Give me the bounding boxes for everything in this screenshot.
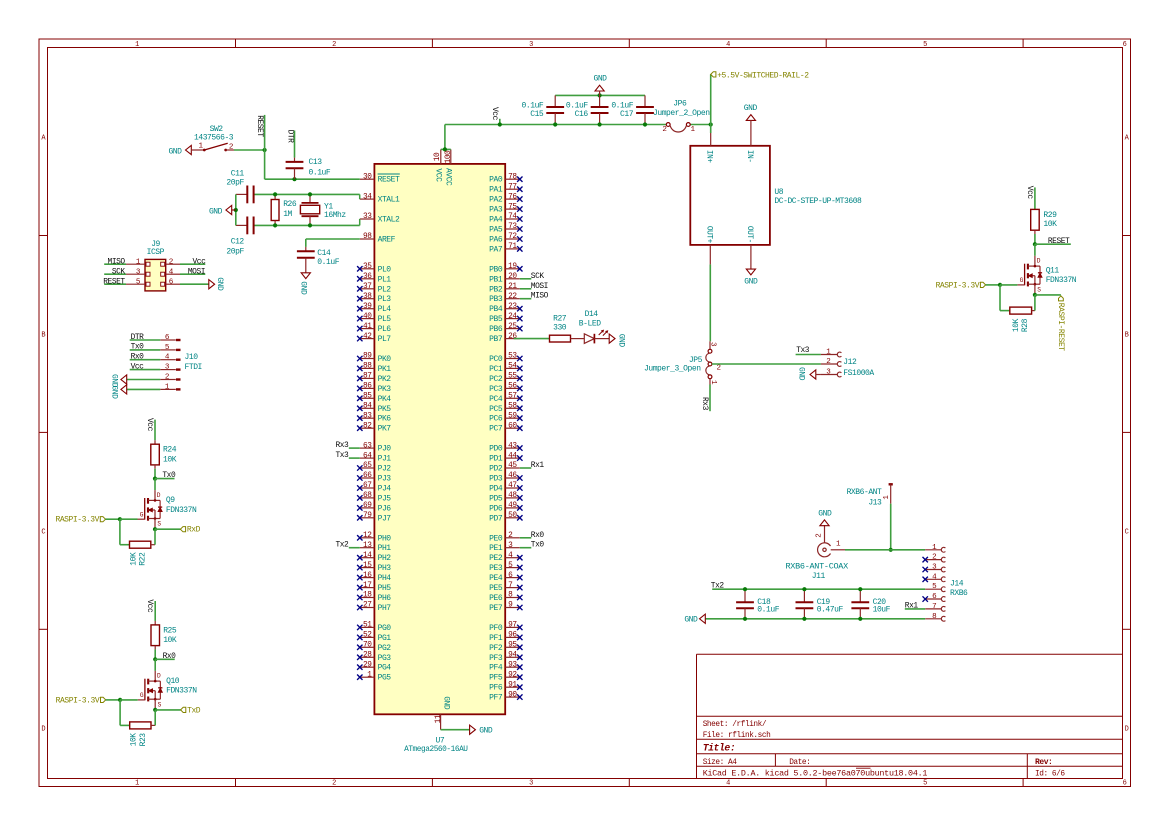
svg-text:67: 67 <box>363 482 372 490</box>
svg-text:R26: R26 <box>283 200 297 209</box>
svg-text:53: 53 <box>508 353 517 361</box>
svg-text:DTR: DTR <box>285 130 294 144</box>
svg-text:RXB6: RXB6 <box>950 589 968 598</box>
svg-text:Rx0: Rx0 <box>131 353 145 362</box>
svg-text:PJ2: PJ2 <box>378 465 392 474</box>
svg-text:2: 2 <box>332 780 336 788</box>
svg-text:PH1: PH1 <box>378 544 392 553</box>
svg-text:GND: GND <box>441 696 450 710</box>
svg-text:98: 98 <box>363 233 372 241</box>
svg-text:20pF: 20pF <box>226 179 244 188</box>
svg-text:2: 2 <box>332 41 336 49</box>
svg-text:PF3: PF3 <box>489 654 503 663</box>
svg-text:PH4: PH4 <box>378 574 392 583</box>
svg-text:100: 100 <box>445 150 453 163</box>
svg-text:PL4: PL4 <box>378 305 392 314</box>
svg-text:JP6: JP6 <box>673 99 687 108</box>
svg-text:PJ3: PJ3 <box>378 475 392 484</box>
svg-text:D14: D14 <box>585 310 599 319</box>
svg-text:RXB6-ANT: RXB6-ANT <box>847 488 882 497</box>
svg-text:RXB6-ANT-COAX: RXB6-ANT-COAX <box>786 561 849 571</box>
svg-text:MOSI: MOSI <box>188 267 205 276</box>
svg-text:IN+: IN+ <box>705 150 713 163</box>
svg-text:PH2: PH2 <box>378 554 392 563</box>
svg-text:PC6: PC6 <box>489 415 503 424</box>
svg-text:C17: C17 <box>620 110 634 119</box>
svg-text:82: 82 <box>363 422 372 430</box>
svg-text:PL2: PL2 <box>378 285 392 294</box>
svg-text:85: 85 <box>363 393 372 401</box>
svg-text:47: 47 <box>508 482 517 490</box>
svg-text:PB2: PB2 <box>489 285 503 294</box>
svg-text:43: 43 <box>508 442 517 450</box>
svg-text:72: 72 <box>508 233 517 241</box>
svg-text:94: 94 <box>508 652 517 660</box>
svg-text:3: 3 <box>529 41 533 49</box>
svg-text:21: 21 <box>508 283 517 291</box>
svg-text:R24: R24 <box>163 446 177 455</box>
svg-text:C: C <box>1125 529 1129 537</box>
svg-text:PF2: PF2 <box>489 644 503 653</box>
svg-text:Rx0: Rx0 <box>163 652 177 661</box>
svg-text:38: 38 <box>363 293 372 301</box>
svg-text:PC2: PC2 <box>489 375 503 384</box>
svg-text:PG3: PG3 <box>378 654 392 663</box>
svg-text:J11: J11 <box>812 572 826 581</box>
svg-text:GND: GND <box>215 277 224 291</box>
svg-text:XTAL2: XTAL2 <box>378 216 400 225</box>
svg-text:66: 66 <box>363 472 372 480</box>
svg-text:18: 18 <box>363 592 372 600</box>
svg-text:Jumper_3_Open: Jumper_3_Open <box>644 365 701 374</box>
svg-text:TxD: TxD <box>187 706 201 715</box>
svg-text:MOSI: MOSI <box>531 282 548 291</box>
svg-text:Vcc: Vcc <box>131 362 145 371</box>
svg-text:PA1: PA1 <box>489 186 503 195</box>
svg-text:OUT-: OUT- <box>745 226 753 243</box>
svg-text:88: 88 <box>363 363 372 371</box>
svg-text:PK6: PK6 <box>378 415 392 424</box>
svg-text:R23: R23 <box>139 733 148 747</box>
svg-text:PC5: PC5 <box>489 405 503 414</box>
svg-text:B: B <box>41 332 45 340</box>
svg-text:PE4: PE4 <box>489 574 503 583</box>
svg-text:PB3: PB3 <box>489 295 503 304</box>
svg-text:AVCC: AVCC <box>444 168 453 186</box>
svg-text:RESET: RESET <box>255 115 264 137</box>
svg-text:PE3: PE3 <box>489 564 503 573</box>
svg-text:52: 52 <box>363 632 372 640</box>
svg-text:C16: C16 <box>575 110 589 119</box>
svg-text:J13: J13 <box>868 499 882 508</box>
svg-text:PJ5: PJ5 <box>378 494 392 503</box>
svg-text:89: 89 <box>363 353 372 361</box>
svg-text:GND: GND <box>744 277 758 286</box>
svg-text:57: 57 <box>508 393 517 401</box>
svg-text:PB7: PB7 <box>489 335 503 344</box>
svg-text:ICSP: ICSP <box>147 248 165 257</box>
svg-text:PG2: PG2 <box>378 644 392 653</box>
svg-text:PJ7: PJ7 <box>378 514 392 523</box>
svg-text:PB5: PB5 <box>489 315 503 324</box>
svg-text:GND: GND <box>744 104 758 113</box>
svg-text:49: 49 <box>508 502 517 510</box>
svg-text:14: 14 <box>363 552 372 560</box>
svg-text:97: 97 <box>508 622 517 630</box>
svg-text:50: 50 <box>508 512 517 520</box>
svg-text:R22: R22 <box>139 552 148 566</box>
svg-text:FTDI: FTDI <box>185 363 202 372</box>
svg-text:30: 30 <box>363 173 372 181</box>
svg-text:5: 5 <box>923 41 927 49</box>
svg-text:59: 59 <box>508 412 517 420</box>
svg-text:PH5: PH5 <box>378 584 392 593</box>
svg-text:RxD: RxD <box>187 526 201 535</box>
svg-text:37: 37 <box>363 283 372 291</box>
svg-text:B-LED: B-LED <box>579 319 601 328</box>
svg-text:R29: R29 <box>1043 211 1057 220</box>
svg-text:D: D <box>1125 726 1129 734</box>
svg-text:PJ0: PJ0 <box>378 445 392 454</box>
svg-text:44: 44 <box>508 452 517 460</box>
svg-text:PK7: PK7 <box>378 425 392 434</box>
svg-text:PA0: PA0 <box>489 176 503 185</box>
svg-text:5: 5 <box>923 780 927 788</box>
svg-text:Sheet: /rflink/: Sheet: /rflink/ <box>703 721 767 729</box>
svg-text:PA5: PA5 <box>489 226 503 235</box>
svg-text:Vcc: Vcc <box>1025 186 1034 200</box>
svg-text:RASPI-3.3V: RASPI-3.3V <box>56 696 100 705</box>
svg-text:Q11: Q11 <box>1046 267 1060 276</box>
svg-text:0.1uF: 0.1uF <box>757 606 779 615</box>
svg-text:41: 41 <box>363 323 372 331</box>
svg-text:R25: R25 <box>163 626 177 635</box>
svg-text:GND: GND <box>796 367 805 381</box>
svg-text:29: 29 <box>363 661 372 669</box>
svg-text:C12: C12 <box>231 238 245 247</box>
svg-text:GND: GND <box>818 509 832 518</box>
svg-text:PA4: PA4 <box>489 216 503 225</box>
svg-text:RESET: RESET <box>103 277 125 286</box>
svg-text:PH0: PH0 <box>378 534 392 543</box>
svg-text:23: 23 <box>508 303 517 311</box>
svg-text:PB0: PB0 <box>489 265 503 274</box>
svg-text:Jumper_2_Open: Jumper_2_Open <box>653 109 710 118</box>
svg-text:PG5: PG5 <box>378 674 392 683</box>
svg-text:Tx2: Tx2 <box>711 581 725 590</box>
svg-text:PK1: PK1 <box>378 365 392 374</box>
svg-text:10: 10 <box>434 152 442 161</box>
svg-text:C13: C13 <box>309 158 323 167</box>
svg-text:7: 7 <box>932 603 936 611</box>
svg-text:22: 22 <box>508 293 517 301</box>
svg-text:GND: GND <box>617 334 626 348</box>
svg-text:10K: 10K <box>163 455 177 464</box>
svg-text:68: 68 <box>363 492 372 500</box>
svg-text:J14: J14 <box>950 579 964 588</box>
svg-text:36: 36 <box>363 273 372 281</box>
svg-text:4: 4 <box>726 780 730 788</box>
svg-text:PL6: PL6 <box>378 325 392 334</box>
svg-text:RESET: RESET <box>378 176 400 185</box>
svg-text:PL0: PL0 <box>378 265 392 274</box>
svg-text:Size: A4: Size: A4 <box>703 759 738 767</box>
svg-text:54: 54 <box>508 363 517 371</box>
svg-text:3: 3 <box>529 780 533 788</box>
svg-text:35: 35 <box>363 263 372 271</box>
svg-text:69: 69 <box>363 502 372 510</box>
svg-text:D: D <box>41 726 45 734</box>
svg-text:79: 79 <box>363 512 372 520</box>
svg-text:51: 51 <box>363 622 372 630</box>
svg-text:C: C <box>41 529 45 537</box>
svg-text:Rx0: Rx0 <box>531 531 545 540</box>
svg-text:Q9: Q9 <box>166 496 175 505</box>
svg-text:1M: 1M <box>283 210 292 219</box>
svg-text:Tx0: Tx0 <box>162 471 176 480</box>
svg-text:96: 96 <box>508 632 517 640</box>
svg-text:76: 76 <box>508 193 517 201</box>
svg-text:Tx3: Tx3 <box>335 451 349 460</box>
svg-text:ATmega2560-16AU: ATmega2560-16AU <box>404 746 468 754</box>
svg-text:13: 13 <box>363 542 372 550</box>
svg-text:95: 95 <box>508 642 517 650</box>
svg-text:PE6: PE6 <box>489 594 503 603</box>
svg-text:PD6: PD6 <box>489 504 503 513</box>
svg-text:17: 17 <box>363 582 372 590</box>
svg-text:Tx2: Tx2 <box>335 541 349 550</box>
svg-text:GND: GND <box>593 74 607 83</box>
svg-text:PH3: PH3 <box>378 564 392 573</box>
svg-text:OUT+: OUT+ <box>705 226 713 244</box>
svg-text:DC-DC-STEP-UP-MT3608: DC-DC-STEP-UP-MT3608 <box>774 197 862 206</box>
svg-text:0.1uF: 0.1uF <box>309 168 331 177</box>
svg-text:Rx3: Rx3 <box>700 397 709 411</box>
svg-text:PD0: PD0 <box>489 445 503 454</box>
svg-text:VCC: VCC <box>434 168 443 182</box>
svg-text:12: 12 <box>363 532 372 540</box>
svg-text:C11: C11 <box>231 169 245 178</box>
svg-text:75: 75 <box>508 203 517 211</box>
svg-text:87: 87 <box>363 373 372 381</box>
svg-text:10K: 10K <box>1043 220 1057 229</box>
svg-text:PL5: PL5 <box>378 315 392 324</box>
svg-text:1437566-3: 1437566-3 <box>194 134 234 143</box>
svg-text:PA7: PA7 <box>489 245 503 254</box>
svg-text:46: 46 <box>508 472 517 480</box>
svg-text:PC3: PC3 <box>489 385 503 394</box>
svg-text:J10: J10 <box>185 353 199 362</box>
svg-text:PF4: PF4 <box>489 664 503 673</box>
svg-text:PK5: PK5 <box>378 405 392 414</box>
svg-text:70: 70 <box>363 642 372 650</box>
svg-text:83: 83 <box>363 412 372 420</box>
svg-text:20pF: 20pF <box>226 248 244 257</box>
svg-text:XTAL1: XTAL1 <box>378 196 400 205</box>
svg-text:R27: R27 <box>553 314 567 323</box>
svg-text:AREF: AREF <box>378 236 396 245</box>
svg-text:PE7: PE7 <box>489 604 503 613</box>
svg-text:PE1: PE1 <box>489 544 503 553</box>
svg-text:B: B <box>1125 332 1129 340</box>
svg-text:FDN337N: FDN337N <box>166 687 197 696</box>
svg-text:PD3: PD3 <box>489 475 503 484</box>
svg-text:25: 25 <box>508 323 517 331</box>
svg-text:20: 20 <box>508 273 517 281</box>
svg-text:FDN337N: FDN337N <box>166 506 197 515</box>
svg-text:6: 6 <box>1123 41 1127 49</box>
svg-text:PC7: PC7 <box>489 425 503 434</box>
svg-text:Tx3: Tx3 <box>796 346 810 355</box>
svg-text:PA2: PA2 <box>489 196 503 205</box>
svg-text:J12: J12 <box>843 358 857 367</box>
svg-text:GND: GND <box>684 616 698 625</box>
svg-text:PF7: PF7 <box>489 694 503 703</box>
svg-text:84: 84 <box>363 403 372 411</box>
svg-text:55: 55 <box>508 373 517 381</box>
svg-text:C15: C15 <box>530 110 544 119</box>
svg-text:PF0: PF0 <box>489 624 503 633</box>
svg-text:PC1: PC1 <box>489 365 503 374</box>
svg-text:Id: 6/6: Id: 6/6 <box>1035 770 1065 778</box>
svg-text:15: 15 <box>363 562 372 570</box>
svg-text:19: 19 <box>508 263 517 271</box>
svg-text:PE0: PE0 <box>489 534 503 543</box>
svg-text:1: 1 <box>135 41 139 49</box>
svg-text:GND: GND <box>110 385 119 399</box>
svg-text:10K: 10K <box>130 733 139 747</box>
svg-text:RASPI-3.3V: RASPI-3.3V <box>55 516 99 525</box>
svg-text:93: 93 <box>508 661 517 669</box>
svg-text:Rev:: Rev: <box>1035 758 1052 767</box>
svg-text:Vcc: Vcc <box>193 257 207 266</box>
svg-text:PL3: PL3 <box>378 295 392 304</box>
svg-text:GND: GND <box>298 281 307 295</box>
svg-text:64: 64 <box>363 452 372 460</box>
svg-text:Vcc: Vcc <box>490 107 499 121</box>
svg-text:330: 330 <box>553 324 567 333</box>
svg-text:26: 26 <box>508 333 517 341</box>
svg-text:Rx3: Rx3 <box>335 441 349 450</box>
svg-text:PD7: PD7 <box>489 514 503 523</box>
svg-text:RESET: RESET <box>1048 237 1070 246</box>
svg-text:16Mhz: 16Mhz <box>324 211 346 220</box>
svg-text:PK3: PK3 <box>378 385 392 394</box>
svg-text:FS1000A: FS1000A <box>843 369 874 378</box>
svg-text:10uF: 10uF <box>873 606 891 615</box>
svg-text:PA3: PA3 <box>489 206 503 215</box>
svg-text:PK2: PK2 <box>378 375 392 384</box>
svg-text:U8: U8 <box>774 188 783 197</box>
svg-text:91: 91 <box>508 681 517 689</box>
svg-text:PL7: PL7 <box>378 335 392 344</box>
svg-text:SCK: SCK <box>112 267 126 276</box>
svg-text:PD1: PD1 <box>489 455 503 464</box>
svg-text:39: 39 <box>363 303 372 311</box>
svg-text:28: 28 <box>363 652 372 660</box>
svg-text:24: 24 <box>508 313 517 321</box>
svg-text:PC0: PC0 <box>489 355 503 364</box>
svg-text:File: rflink.sch: File: rflink.sch <box>703 732 771 740</box>
svg-text:Title:: Title: <box>703 743 736 754</box>
svg-text:MISO: MISO <box>108 257 126 266</box>
svg-text:PK0: PK0 <box>378 355 392 364</box>
svg-text:C14: C14 <box>317 249 331 258</box>
svg-text:60: 60 <box>508 422 517 430</box>
svg-text:PJ4: PJ4 <box>378 485 392 494</box>
svg-text:86: 86 <box>363 383 372 391</box>
svg-text:10K: 10K <box>129 552 138 566</box>
svg-text:PB6: PB6 <box>489 325 503 334</box>
svg-text:RASPI-RESET: RASPI-RESET <box>1056 303 1065 352</box>
svg-text:Tx0: Tx0 <box>531 541 545 550</box>
svg-text:PG4: PG4 <box>378 664 392 673</box>
svg-text:GND: GND <box>168 148 182 157</box>
svg-text:RASPI-3.3V: RASPI-3.3V <box>936 281 980 290</box>
svg-text:KiCad E.D.A. kicad 5.0.2-bee7: KiCad E.D.A. kicad 5.0.2-bee76a070ubuntu… <box>703 768 928 778</box>
svg-text:27: 27 <box>363 602 372 610</box>
svg-text:PD2: PD2 <box>489 465 503 474</box>
svg-text:PD5: PD5 <box>489 494 503 503</box>
svg-text:1: 1 <box>135 780 139 788</box>
svg-text:IN-: IN- <box>745 150 753 163</box>
svg-text:Q10: Q10 <box>166 677 180 686</box>
svg-text:PF5: PF5 <box>489 674 503 683</box>
svg-text:0.1uF: 0.1uF <box>317 258 339 267</box>
svg-text:PB4: PB4 <box>489 305 503 314</box>
svg-text:45: 45 <box>508 462 517 470</box>
svg-text:78: 78 <box>508 173 517 181</box>
svg-text:65: 65 <box>363 462 372 470</box>
svg-text:58: 58 <box>508 403 517 411</box>
svg-text:PK4: PK4 <box>378 395 392 404</box>
svg-text:PD4: PD4 <box>489 485 503 494</box>
svg-text:90: 90 <box>508 691 517 699</box>
svg-text:48: 48 <box>508 492 517 500</box>
svg-text:MISO: MISO <box>531 292 549 301</box>
svg-text:PG1: PG1 <box>378 634 392 643</box>
svg-text:0.47uF: 0.47uF <box>817 606 844 615</box>
svg-text:4: 4 <box>726 41 730 49</box>
svg-text:+5.5V-SWITCHED-RAIL-2: +5.5V-SWITCHED-RAIL-2 <box>717 71 809 80</box>
svg-text:FDN337N: FDN337N <box>1046 276 1077 285</box>
svg-text:71: 71 <box>508 243 517 251</box>
svg-text:92: 92 <box>508 671 517 679</box>
svg-text:33: 33 <box>363 213 372 221</box>
svg-text:Vcc: Vcc <box>145 418 154 432</box>
svg-text:PA6: PA6 <box>489 236 503 245</box>
svg-text:40: 40 <box>363 313 372 321</box>
svg-text:11: 11 <box>435 714 443 723</box>
svg-text:10K: 10K <box>1012 318 1021 332</box>
svg-text:Vcc: Vcc <box>145 599 154 613</box>
svg-text:PJ6: PJ6 <box>378 504 392 513</box>
svg-text:GND: GND <box>209 208 223 217</box>
svg-text:PB1: PB1 <box>489 275 503 284</box>
svg-text:PL1: PL1 <box>378 275 392 284</box>
svg-text:56: 56 <box>508 383 517 391</box>
svg-text:77: 77 <box>508 183 517 191</box>
svg-text:PE2: PE2 <box>489 554 503 563</box>
svg-text:U7: U7 <box>436 736 445 745</box>
svg-text:6: 6 <box>1123 780 1127 788</box>
svg-text:PJ1: PJ1 <box>378 455 392 464</box>
svg-text:SCK: SCK <box>531 272 545 281</box>
svg-text:16: 16 <box>363 572 372 580</box>
svg-text:GND: GND <box>479 726 493 735</box>
svg-text:DTR: DTR <box>131 333 145 342</box>
svg-text:PH6: PH6 <box>378 594 392 603</box>
